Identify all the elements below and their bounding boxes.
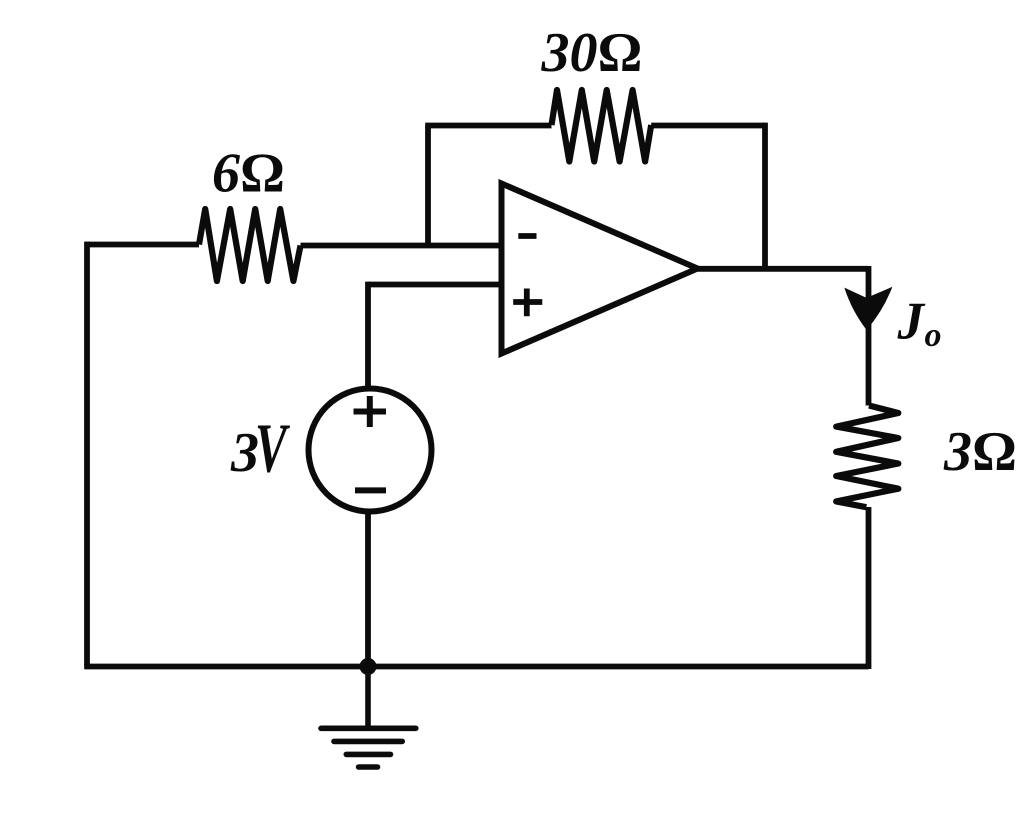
ground symbol: [321, 667, 416, 768]
resistor R2 (30 ohm) zigzag: [552, 90, 652, 162]
label current Io: [897, 293, 942, 355]
op-amp U1 non-inverting pin marker (plus): [513, 289, 542, 317]
wire: non-inverting input down to source V1: [365, 282, 371, 389]
wire: bottom rail horizontal: [84, 664, 868, 670]
svg-text:J: J: [897, 293, 926, 351]
op-amp U1 triangle: [502, 184, 698, 354]
voltage source V1 minus sign: [355, 487, 386, 493]
node: junction dot at ground tap: [360, 658, 377, 675]
wire: left rail vertical: [84, 242, 90, 667]
svg-text:V: V: [255, 410, 290, 487]
label R2 value 30Ω: [541, 22, 642, 84]
wire: feedback right vertical: [762, 123, 768, 269]
wire: feedback top right segment: [651, 123, 765, 129]
label R1 value 6Ω: [212, 143, 284, 205]
svg-text:6Ω: 6Ω: [212, 143, 284, 205]
svg-text:30Ω: 30Ω: [541, 22, 642, 84]
wire: feedback left vertical: [425, 126, 431, 248]
svg-text:o: o: [925, 317, 942, 354]
wire: op-amp output horizontal: [698, 266, 869, 272]
wire: source V1 to ground node: [365, 512, 371, 667]
voltage source V1 circle: [309, 389, 432, 512]
label R3 value 3Ω: [943, 421, 1016, 483]
op-amp U1 inverting pin marker (minus): [518, 233, 536, 239]
wire: feedback top left segment: [425, 123, 551, 129]
wire: non-inverting input horizontal: [368, 282, 502, 288]
wire: R1 to op-amp inverting input: [301, 243, 502, 249]
wire: R3 to bottom rail: [866, 507, 872, 669]
resistor R1 (6 ohm) zigzag: [199, 209, 301, 281]
current arrow Io (downward): [846, 288, 891, 329]
voltage source V1 plus sign: [354, 396, 387, 427]
wire: output branch vertical (through arrow to R3): [866, 266, 872, 406]
resistor R3 (3 ohm) zigzag vertical: [836, 406, 898, 508]
label V1 value 3V: [230, 410, 290, 487]
wire: left rail to resistor R1: [85, 242, 199, 248]
svg-text:3Ω: 3Ω: [943, 421, 1016, 483]
